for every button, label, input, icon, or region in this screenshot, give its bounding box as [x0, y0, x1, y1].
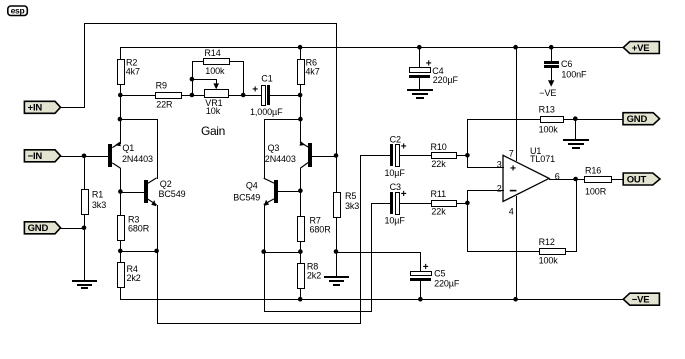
- svg-text:Q1: Q1: [122, 143, 134, 153]
- svg-text:100R: 100R: [585, 187, 607, 197]
- svg-text:100k: 100k: [539, 125, 559, 135]
- svg-text:+: +: [426, 59, 432, 70]
- svg-text:GND: GND: [627, 114, 648, 125]
- svg-text:100k: 100k: [205, 66, 225, 76]
- svg-text:7: 7: [509, 148, 514, 158]
- svg-text:6: 6: [555, 171, 560, 181]
- svg-text:3k3: 3k3: [345, 201, 359, 211]
- svg-text:2: 2: [497, 183, 502, 193]
- svg-text:1,000µF: 1,000µF: [250, 107, 283, 117]
- svg-text:C2: C2: [390, 135, 401, 145]
- svg-text:esp: esp: [11, 6, 25, 16]
- svg-text:+: +: [423, 262, 429, 273]
- svg-text:22k: 22k: [431, 159, 446, 169]
- svg-text:C5: C5: [434, 268, 445, 278]
- svg-text:OUT: OUT: [627, 174, 647, 185]
- svg-text:3k3: 3k3: [92, 200, 106, 210]
- svg-text:+: +: [401, 189, 407, 200]
- svg-text:2N4403: 2N4403: [265, 154, 296, 164]
- svg-text:R13: R13: [539, 105, 555, 115]
- svg-text:220µF: 220µF: [434, 279, 460, 289]
- svg-text:R16: R16: [585, 165, 601, 175]
- svg-text:Q2: Q2: [160, 179, 172, 189]
- svg-text:BC549: BC549: [233, 193, 260, 203]
- svg-text:+VE: +VE: [632, 43, 650, 54]
- svg-text:R1: R1: [92, 189, 103, 199]
- svg-text:+: +: [510, 162, 516, 174]
- svg-text:2k2: 2k2: [127, 273, 141, 283]
- svg-text:GND: GND: [28, 223, 49, 234]
- svg-text:22R: 22R: [156, 100, 173, 110]
- svg-text:2k2: 2k2: [307, 271, 321, 281]
- svg-text:+: +: [401, 142, 407, 153]
- svg-text:4k7: 4k7: [126, 67, 140, 77]
- svg-text:C3: C3: [390, 182, 401, 192]
- svg-text:R14: R14: [204, 48, 220, 58]
- svg-text:R11: R11: [431, 189, 447, 199]
- svg-text:−IN: −IN: [28, 151, 43, 162]
- svg-text:10k: 10k: [206, 106, 221, 116]
- svg-text:2N4403: 2N4403: [122, 154, 153, 164]
- svg-text:Q4: Q4: [246, 181, 258, 191]
- svg-text:−VE: −VE: [539, 88, 556, 98]
- svg-text:R12: R12: [539, 237, 555, 247]
- svg-text:680R: 680R: [310, 225, 332, 235]
- svg-text:4: 4: [509, 206, 514, 216]
- svg-text:R9: R9: [156, 81, 167, 91]
- svg-text:220µF: 220µF: [433, 75, 459, 85]
- svg-text:C6: C6: [561, 59, 572, 69]
- svg-text:3: 3: [497, 160, 502, 170]
- svg-text:TL071: TL071: [530, 154, 555, 164]
- svg-text:4k7: 4k7: [305, 67, 319, 77]
- svg-text:680R: 680R: [128, 224, 150, 234]
- svg-text:Q3: Q3: [268, 143, 280, 153]
- svg-text:Gain: Gain: [201, 124, 225, 138]
- svg-text:+IN: +IN: [28, 103, 43, 114]
- svg-text:100k: 100k: [539, 256, 559, 266]
- svg-text:100nF: 100nF: [561, 69, 587, 79]
- svg-text:10µF: 10µF: [385, 215, 406, 225]
- svg-text:+: +: [252, 84, 258, 95]
- svg-text:22k: 22k: [431, 207, 446, 217]
- svg-text:C1: C1: [261, 74, 272, 84]
- svg-text:−VE: −VE: [632, 295, 650, 306]
- svg-text:R5: R5: [345, 191, 356, 201]
- svg-text:R10: R10: [431, 142, 447, 152]
- svg-text:BC549: BC549: [159, 189, 186, 199]
- svg-text:10µF: 10µF: [385, 168, 406, 178]
